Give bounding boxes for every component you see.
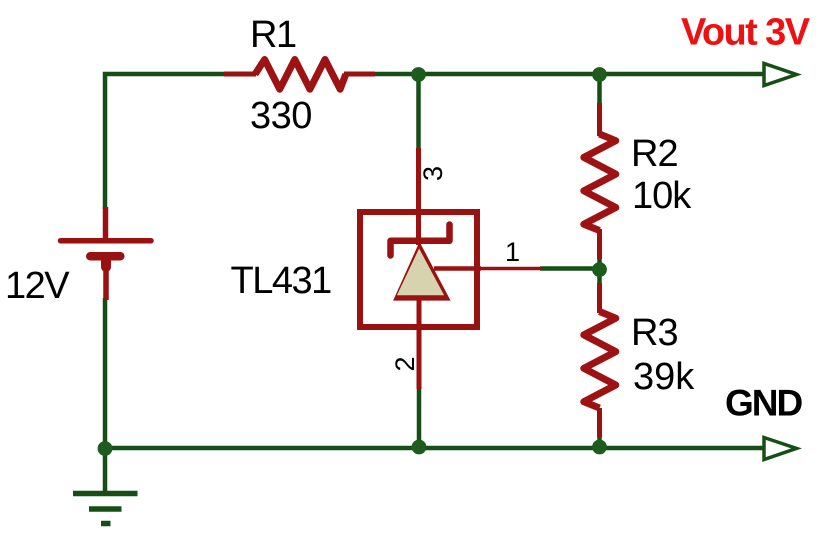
battery B1 negative stub xyxy=(101,261,111,267)
pin stub: battery positive pin xyxy=(103,207,109,240)
IC U1 TL431 zener cathode bar xyxy=(391,225,450,256)
ground xyxy=(73,494,138,524)
svg-text:12V: 12V xyxy=(5,265,70,307)
terminal arrow Vout xyxy=(764,64,797,86)
wire: R3 to ground net xyxy=(597,436,602,448)
wire: node A to TL431 pin 3 xyxy=(416,74,421,150)
node junction top R2 xyxy=(592,67,607,82)
pin stub: TL431 pin 1 xyxy=(480,267,541,271)
resistor R2 xyxy=(584,134,616,231)
wire: R1 to Vout arrow xyxy=(351,72,763,77)
pin stub: R3 pin top xyxy=(597,283,602,313)
node junction R3 bottom xyxy=(592,440,607,455)
pin stub: R1 pin right xyxy=(344,72,375,77)
svg-text:R3: R3 xyxy=(631,312,678,354)
wire: battery- down to ground net xyxy=(103,298,108,448)
IC U1 TL431 ref pin line xyxy=(434,266,481,271)
svg-text:1: 1 xyxy=(505,237,520,267)
IC U1 TL431 body box xyxy=(360,212,477,327)
terminal arrow GND xyxy=(764,438,797,460)
pin stub: battery negative pin xyxy=(103,256,109,300)
node junction divider R2/R3 xyxy=(592,262,607,277)
pin stub: R3 pin bottom xyxy=(597,408,602,437)
wire: R2 to R3 divider node xyxy=(597,258,602,284)
wire: top net to R2 xyxy=(597,74,602,104)
IC U1 TL431 zener triangle outline xyxy=(393,242,451,301)
svg-text:R2: R2 xyxy=(631,133,678,175)
node junction battery bottom xyxy=(98,441,113,456)
svg-text:3: 3 xyxy=(418,166,448,181)
IC U1 TL431 zener triangle fill xyxy=(397,249,444,296)
resistor R1 xyxy=(255,60,346,90)
svg-text:TL431: TL431 xyxy=(231,260,332,302)
svg-text:GND: GND xyxy=(725,383,803,424)
pin stub: R1 pin left xyxy=(224,72,256,77)
svg-text:2: 2 xyxy=(390,356,420,371)
pin stub: TL431 pin 2 xyxy=(417,296,422,389)
pin stub: R2 pin top xyxy=(597,103,602,136)
wire: TL431 pin 1 to divider node xyxy=(540,266,600,271)
battery B1 12V plate positive xyxy=(61,238,152,244)
svg-text:Vout 3V: Vout 3V xyxy=(681,12,811,54)
pin stub: R2 pin bottom xyxy=(597,229,602,259)
svg-text:10k: 10k xyxy=(632,175,692,217)
wire: TL431 pin 2 to ground net xyxy=(417,388,422,448)
node junction TL431 pin2 bottom xyxy=(412,440,427,455)
wire: top net battery+ to R1 xyxy=(105,74,253,209)
svg-text:R1: R1 xyxy=(250,14,296,56)
wire: ground symbol stem xyxy=(103,448,108,491)
svg-text:330: 330 xyxy=(250,95,312,137)
wire: bottom ground net xyxy=(105,446,763,451)
battery B1 12V plate negative xyxy=(90,252,120,261)
node A junction (top, TL431 pin3) xyxy=(411,67,426,82)
svg-text:39k: 39k xyxy=(633,356,695,398)
pin stub: TL431 pin 3 xyxy=(416,148,421,245)
resistor R3 xyxy=(584,312,616,409)
